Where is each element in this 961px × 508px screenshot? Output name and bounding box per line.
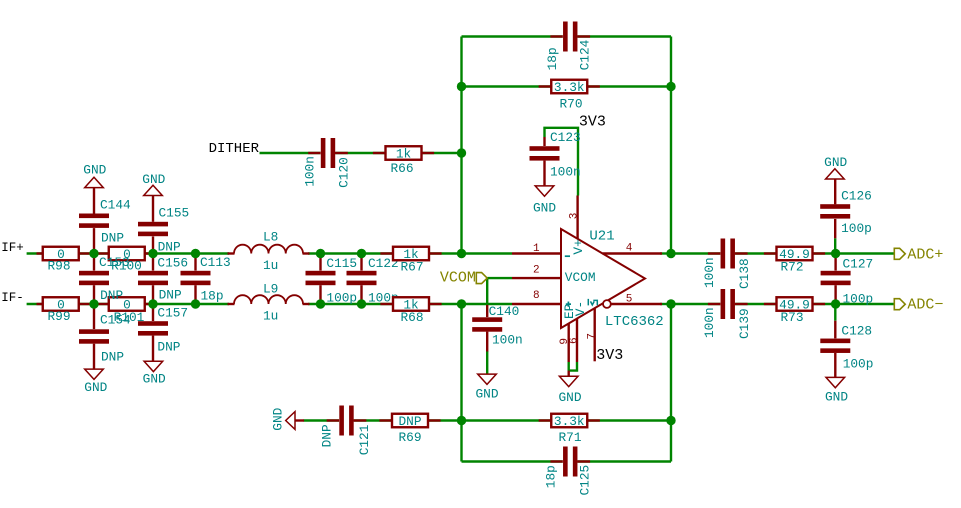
resistor R67 — [380, 247, 441, 275]
ground below op-amp — [558, 371, 581, 405]
svg-text:V-: V- — [573, 301, 588, 316]
svg-text:C153: C153 — [99, 255, 130, 270]
svg-text:C123: C123 — [550, 130, 581, 145]
svg-text:R71: R71 — [558, 430, 581, 445]
svg-text:R66: R66 — [390, 161, 413, 176]
svg-text:C154: C154 — [100, 313, 131, 328]
resistor R66 — [373, 146, 434, 176]
svg-text:100n: 100n — [492, 333, 523, 348]
ground above C155 — [142, 172, 165, 196]
svg-text:C113: C113 — [200, 255, 231, 270]
svg-text:C121: C121 — [357, 424, 372, 455]
svg-text:VCOM: VCOM — [440, 270, 476, 287]
svg-text:U21: U21 — [589, 228, 614, 244]
svg-text:C144: C144 — [100, 198, 131, 213]
ground below C154 — [84, 369, 107, 395]
capacitor C138 — [702, 238, 752, 289]
svg-text:100n: 100n — [303, 156, 318, 187]
svg-text:GND: GND — [142, 172, 165, 187]
svg-text:1u: 1u — [263, 309, 278, 324]
svg-text:100n: 100n — [550, 164, 581, 179]
node IF+ C — [191, 249, 200, 258]
node ADC- — [831, 299, 840, 308]
power 3V3 pin7 — [596, 347, 623, 364]
wire IF+ rail left — [79, 252, 229, 254]
ground left of C121 — [271, 407, 305, 430]
capacitor C144 — [79, 188, 131, 254]
resistor R72 — [764, 247, 825, 275]
node out- — [666, 299, 675, 308]
capacitor C139 — [702, 289, 752, 339]
wire C140 to gnd — [486, 351, 488, 374]
resistor R100 — [97, 247, 151, 274]
wire ADC- rail — [671, 303, 894, 305]
wire right bus upper — [670, 37, 672, 254]
svg-text:DITHER: DITHER — [209, 141, 260, 157]
svg-text:3.3k: 3.3k — [554, 414, 585, 429]
wire right bus lower — [670, 304, 672, 462]
svg-text:6: 6 — [568, 337, 580, 344]
ground above C126 — [824, 155, 847, 179]
resistor R68 — [380, 297, 441, 325]
capacitor C156 — [138, 254, 188, 305]
svg-text:C140: C140 — [489, 304, 520, 319]
resistor R99 — [37, 297, 90, 324]
svg-text:3: 3 — [568, 213, 580, 220]
svg-text:GND: GND — [143, 372, 166, 387]
node IF- C — [191, 299, 200, 308]
svg-text:18p: 18p — [544, 465, 559, 488]
capacitor C155 — [138, 196, 190, 255]
svg-text:GND: GND — [83, 163, 106, 178]
power 3V3 top — [579, 114, 606, 131]
global label ADC- — [894, 297, 943, 314]
hierarchical label IF- — [1, 291, 24, 305]
svg-text:3V3: 3V3 — [596, 347, 623, 364]
wire top C124 run — [462, 35, 672, 37]
svg-text:100p: 100p — [843, 291, 874, 306]
node R70 left — [457, 82, 466, 91]
op-amp U21 LTC6362 — [512, 196, 664, 363]
wire pin4 to bus — [660, 252, 671, 254]
capacitor C123 — [529, 130, 581, 186]
wire left bus upper — [460, 37, 462, 254]
node out+ — [666, 249, 675, 258]
svg-text:L9: L9 — [263, 281, 278, 296]
ground above C144 — [83, 163, 106, 188]
label DITHER — [209, 141, 260, 157]
capacitor C126 — [820, 179, 872, 238]
wire VCOM to pin2 — [487, 277, 512, 279]
resistor R101 — [97, 297, 151, 325]
svg-text:100p: 100p — [843, 356, 874, 371]
ground below C157 — [143, 361, 166, 386]
wire IF+ stub — [27, 252, 43, 254]
svg-text:1u: 1u — [263, 258, 278, 273]
svg-text:5: 5 — [626, 294, 633, 306]
wire bottom C125 run — [462, 460, 672, 462]
svg-text:100n: 100n — [702, 307, 717, 338]
hierarchical label IF+ — [1, 241, 24, 255]
svg-text:V+: V+ — [571, 239, 586, 254]
capacitor C121 — [320, 405, 372, 455]
svg-text:R99: R99 — [47, 309, 70, 324]
svg-text:DNP: DNP — [398, 414, 421, 429]
svg-text:DNP: DNP — [101, 231, 124, 246]
svg-text:DNP: DNP — [320, 424, 335, 447]
svg-text:100p: 100p — [326, 290, 357, 305]
svg-text:DNP: DNP — [159, 288, 182, 303]
node IF+ A — [89, 249, 98, 258]
wire DITHER — [260, 152, 462, 154]
ground below C140 — [475, 374, 498, 401]
wire IF- stub — [27, 303, 43, 305]
resistor R73 — [764, 297, 825, 325]
resistor R98 — [37, 247, 90, 274]
node C115 bottom — [316, 299, 325, 308]
svg-text:ADC−: ADC− — [907, 297, 943, 314]
wire R69 run — [304, 419, 462, 421]
svg-text:2: 2 — [533, 265, 540, 277]
capacitor C140 — [472, 304, 523, 351]
svg-text:DNP: DNP — [101, 349, 124, 364]
svg-text:GND: GND — [825, 390, 848, 405]
wire 3V3 top — [545, 128, 579, 196]
wire opamp gnd pins — [569, 362, 577, 371]
svg-text:IF+: IF+ — [1, 241, 24, 255]
capacitor C120 — [303, 138, 352, 188]
svg-text:C115: C115 — [326, 256, 357, 271]
svg-text:R67: R67 — [400, 259, 423, 274]
capacitor C115 — [305, 254, 357, 306]
wire left bus lower — [460, 304, 462, 462]
resistor R69 — [379, 414, 440, 445]
resistor R70 — [539, 80, 600, 112]
svg-text:C138: C138 — [737, 258, 752, 289]
global label VCOM — [440, 270, 487, 287]
svg-text:IF-: IF- — [1, 291, 24, 305]
capacitor C122 — [346, 254, 399, 306]
svg-text:L8: L8 — [263, 229, 278, 244]
svg-text:C125: C125 — [577, 465, 592, 496]
svg-text:C155: C155 — [159, 206, 190, 221]
node IF- A — [89, 299, 98, 308]
svg-text:3V3: 3V3 — [579, 114, 606, 131]
resistor R71 — [539, 414, 600, 445]
wire IF+ rail mid — [308, 252, 512, 254]
capacitor C157 — [138, 304, 188, 361]
ground below C128 — [825, 377, 848, 404]
svg-text:DNP: DNP — [100, 288, 123, 303]
svg-text:C128: C128 — [841, 323, 872, 338]
inductor L8 — [228, 229, 310, 273]
node inverting input — [457, 249, 466, 258]
svg-text:ADC+: ADC+ — [907, 246, 943, 263]
svg-text:R72: R72 — [780, 259, 803, 274]
svg-text:C157: C157 — [157, 305, 188, 320]
node IF+ B — [148, 249, 157, 258]
node C122 top — [357, 249, 366, 258]
node C122 bottom — [357, 299, 366, 308]
global label ADC+ — [894, 246, 943, 263]
capacitor C154 — [79, 304, 131, 369]
svg-text:1: 1 — [533, 243, 540, 255]
svg-text:R73: R73 — [780, 310, 803, 325]
svg-text:C126: C126 — [841, 189, 872, 204]
svg-text:R70: R70 — [559, 97, 582, 112]
svg-text:DNP: DNP — [157, 339, 180, 354]
wire C126 down — [834, 238, 836, 253]
svg-text:100p: 100p — [841, 221, 872, 236]
capacitor C128 — [820, 321, 873, 378]
svg-text:C120: C120 — [336, 157, 351, 188]
capacitor C127 — [820, 254, 873, 307]
capacitor C125 — [544, 446, 593, 495]
capacitor C113 — [180, 254, 231, 305]
inductor L9 — [228, 281, 310, 323]
svg-text:4: 4 — [626, 243, 633, 255]
svg-text:R68: R68 — [400, 310, 423, 325]
node R71 left — [457, 416, 466, 425]
node R70 right — [666, 82, 675, 91]
svg-text:8: 8 — [533, 290, 540, 302]
svg-text:7: 7 — [587, 333, 599, 340]
ground below C123 — [533, 186, 556, 216]
svg-text:C156: C156 — [157, 256, 188, 271]
svg-text:GND: GND — [84, 380, 107, 395]
wire R71 run — [462, 419, 672, 421]
svg-text:LTC6362: LTC6362 — [605, 314, 664, 330]
wire IF- rail left — [79, 303, 229, 305]
svg-text:18p: 18p — [545, 47, 560, 70]
node dither join — [457, 148, 466, 157]
node ADC+ — [831, 249, 840, 258]
node C115 top — [316, 249, 325, 258]
svg-text:1k: 1k — [396, 147, 412, 162]
svg-text:GND: GND — [271, 407, 286, 430]
wire ADC+ rail — [671, 252, 894, 254]
svg-text:C124: C124 — [578, 39, 593, 70]
node R71 right — [666, 416, 675, 425]
wire IF- rail mid — [308, 303, 512, 305]
svg-text:100n: 100n — [702, 257, 717, 288]
node IF- B — [148, 299, 157, 308]
svg-text:GND: GND — [533, 201, 556, 216]
svg-text:GND: GND — [824, 155, 847, 170]
wire C128 up — [834, 304, 836, 321]
capacitor C124 — [545, 21, 593, 70]
svg-text:VCOM: VCOM — [565, 270, 596, 285]
capacitor C153 — [79, 254, 130, 305]
svg-text:C139: C139 — [737, 308, 752, 339]
svg-text:18p: 18p — [201, 289, 224, 304]
node noninverting input — [457, 299, 466, 308]
wire R70 run — [462, 85, 672, 87]
svg-text:R69: R69 — [398, 430, 421, 445]
svg-text:3.3k: 3.3k — [554, 80, 585, 95]
svg-text:GND: GND — [558, 390, 581, 405]
wire VCOM down — [486, 278, 488, 305]
svg-text:C127: C127 — [843, 256, 874, 271]
svg-text:DNP: DNP — [158, 239, 181, 254]
wire pin5 to bus — [660, 303, 671, 305]
svg-text:R98: R98 — [47, 258, 70, 273]
svg-text:GND: GND — [475, 386, 498, 401]
